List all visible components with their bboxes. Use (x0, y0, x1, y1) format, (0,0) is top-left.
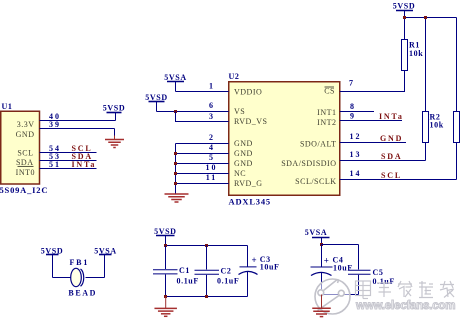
capacitor C1 (153, 246, 199, 297)
svg-text:SCL/SCLK: SCL/SCLK (295, 177, 336, 186)
svg-text:2: 2 (209, 133, 215, 142)
svg-text:NC: NC (234, 169, 246, 178)
ic U1 (1, 111, 40, 184)
power 5VSA (U2 pin1) (164, 73, 186, 92)
svg-text:8: 8 (350, 102, 356, 111)
svg-text:5VSD: 5VSD (103, 104, 125, 113)
svg-text:INT2: INT2 (317, 118, 336, 127)
power 5VSA (FB1 right) (94, 246, 116, 277)
svg-text:5S09A_I2C: 5S09A_I2C (0, 185, 48, 195)
wire U2 pin 11 (176, 173, 229, 183)
svg-text:SCL: SCL (17, 148, 33, 157)
ground (U1 pin39) (105, 129, 124, 148)
svg-text:39: 39 (49, 120, 61, 129)
power 5VSD (caps group) (154, 227, 176, 246)
junction (bus pin11) (174, 182, 177, 185)
svg-text:10uF: 10uF (260, 263, 280, 272)
svg-text:GND: GND (234, 139, 253, 148)
svg-text:FB1: FB1 (70, 258, 90, 267)
wire caps bottom rail (166, 296, 248, 298)
svg-text:14: 14 (350, 169, 362, 178)
svg-text:9: 9 (350, 112, 356, 121)
svg-text:6: 6 (209, 101, 215, 110)
wire caps top rail (166, 245, 248, 247)
svg-text:10k: 10k (430, 121, 444, 130)
wire GND bus vertical (175, 144, 177, 194)
svg-text:SDA/SDISDIO: SDA/SDISDIO (281, 159, 336, 168)
wire U1 pin 54, net SCL (40, 144, 97, 153)
capacitor C3 (polarized) (239, 246, 280, 297)
power 5VSD (top right) (393, 2, 415, 18)
power 5VSD (FB1 left) (41, 246, 63, 277)
junction (rail R1) (403, 16, 406, 19)
wire U2 pin 3 (176, 112, 229, 122)
svg-text:INTa: INTa (72, 160, 97, 169)
wire top-right rail (405, 18, 457, 112)
svg-text:10: 10 (206, 163, 218, 172)
svg-text:GND: GND (234, 149, 253, 158)
svg-text:10uF: 10uF (333, 263, 353, 272)
junction (pin6/pin3) (174, 110, 177, 113)
junction (right bottom) (320, 293, 323, 296)
svg-text:INT1: INT1 (317, 108, 336, 117)
ground (U2 gnd bus) (165, 194, 189, 202)
power 5VSD (U2 pin6) (145, 93, 167, 112)
svg-text:0.1uF: 0.1uF (217, 276, 239, 285)
svg-text:C2: C2 (221, 266, 232, 275)
wire U2 pin 2 (176, 133, 229, 143)
svg-text:SDO/ALT: SDO/ALT (300, 140, 337, 149)
wire right caps bottom rail (322, 294, 359, 296)
wire U2 pin 9, net INTa (340, 112, 404, 122)
resistor R3 (454, 112, 460, 143)
svg-text:+: + (252, 255, 258, 265)
junction (rail C1) (164, 244, 167, 247)
svg-text:3.3V: 3.3V (17, 120, 35, 129)
wire U2 pin 5 (176, 153, 229, 163)
junction (bottom C2) (205, 295, 208, 298)
ferrite bead FB1 (53, 258, 105, 297)
wire U1 pin 53, net SDA (40, 152, 97, 161)
svg-text:5VSD: 5VSD (145, 93, 167, 102)
svg-text:12: 12 (350, 132, 362, 141)
junction (bus pin5) (174, 162, 177, 165)
svg-text:5: 5 (209, 153, 215, 162)
svg-text:RVD_VS: RVD_VS (234, 117, 267, 126)
pin name SDA (underlined) (16, 158, 34, 167)
svg-text:0.1uF: 0.1uF (177, 276, 199, 285)
svg-text:5VSD: 5VSD (154, 227, 176, 236)
power 5VSA (right caps) (305, 228, 330, 245)
svg-text:4: 4 (209, 143, 215, 152)
resistor R1 (402, 40, 424, 71)
svg-text:+: + (324, 255, 330, 265)
junction (5VSA rail) (320, 243, 323, 246)
svg-text:GND: GND (16, 130, 35, 139)
wire R3 bottom to SCL (456, 143, 458, 180)
wire U1 pin 39 (40, 120, 115, 129)
svg-text:7: 7 (349, 79, 355, 88)
wire U2 pin 10 (176, 163, 229, 173)
ic U2 ADXL345 (229, 82, 340, 196)
resistor R2 (423, 112, 444, 143)
svg-text:VDDIO: VDDIO (234, 88, 262, 97)
wire U2 pin 4 (176, 143, 229, 153)
svg-text:5VSA: 5VSA (164, 73, 186, 82)
svg-text:www.elecfans.com: www.elecfans.com (355, 300, 455, 312)
svg-text:GND: GND (380, 134, 403, 143)
junction (rail R2) (424, 16, 427, 19)
wire U2 pin 1 (176, 82, 229, 92)
svg-text:ADXL345: ADXL345 (229, 196, 271, 206)
watermark chinese characters (356, 281, 455, 299)
junction (bus pin4) (174, 152, 177, 155)
svg-text:INT0: INT0 (16, 168, 35, 177)
svg-text:SDA: SDA (381, 152, 402, 161)
svg-text:C1: C1 (179, 266, 190, 275)
svg-text:SCL: SCL (381, 171, 402, 180)
svg-text:SDA: SDA (16, 158, 34, 167)
svg-text:BEAD: BEAD (68, 288, 97, 297)
wire R2 bottom to SDA (425, 143, 427, 161)
svg-text:51: 51 (49, 160, 61, 169)
svg-text:U1: U1 (2, 102, 13, 111)
wire U2 pin 6 (157, 101, 229, 111)
junction (bus pin10) (174, 172, 177, 175)
wire U2 pin 8 (340, 102, 374, 112)
svg-text:11: 11 (206, 173, 218, 182)
svg-text:13: 13 (350, 150, 362, 159)
wire U1 pin 51, net INTa (40, 160, 97, 169)
wire U1 pin 40 (40, 112, 116, 121)
wire U2 pin 13, net SDA (340, 150, 426, 161)
wire U2 pin 14, net SCL (340, 169, 457, 180)
capacitor C4 (polarized) (311, 245, 353, 295)
svg-text:INTa: INTa (379, 112, 404, 121)
svg-text:GND: GND (234, 159, 253, 168)
wire U2 pin 12, net GND (340, 132, 406, 143)
wire right caps top rail (322, 244, 359, 246)
svg-text:10k: 10k (409, 49, 423, 58)
pin name CS (overline) (324, 87, 335, 96)
junction (rail C2) (205, 244, 208, 247)
svg-text:C5: C5 (373, 268, 384, 277)
ground (right caps) (312, 295, 331, 317)
svg-text:5VSD: 5VSD (393, 2, 415, 11)
svg-text:CS: CS (324, 87, 335, 96)
svg-text:U2: U2 (229, 72, 240, 81)
ground (caps group) (154, 297, 177, 317)
svg-text:1: 1 (209, 82, 215, 91)
power 5VSD (U1 pin40) (103, 104, 125, 121)
wire R1 to CS pin7 (340, 71, 405, 92)
svg-text:5VSA: 5VSA (305, 228, 327, 237)
capacitor C5 (348, 245, 395, 295)
junction (bottom gnd) (164, 295, 167, 298)
watermark logo elecfans (315, 279, 350, 314)
svg-text:RVD_G: RVD_G (234, 179, 263, 188)
svg-text:VS: VS (234, 107, 245, 116)
capacitor C2 (195, 246, 240, 297)
svg-text:3: 3 (209, 112, 215, 121)
